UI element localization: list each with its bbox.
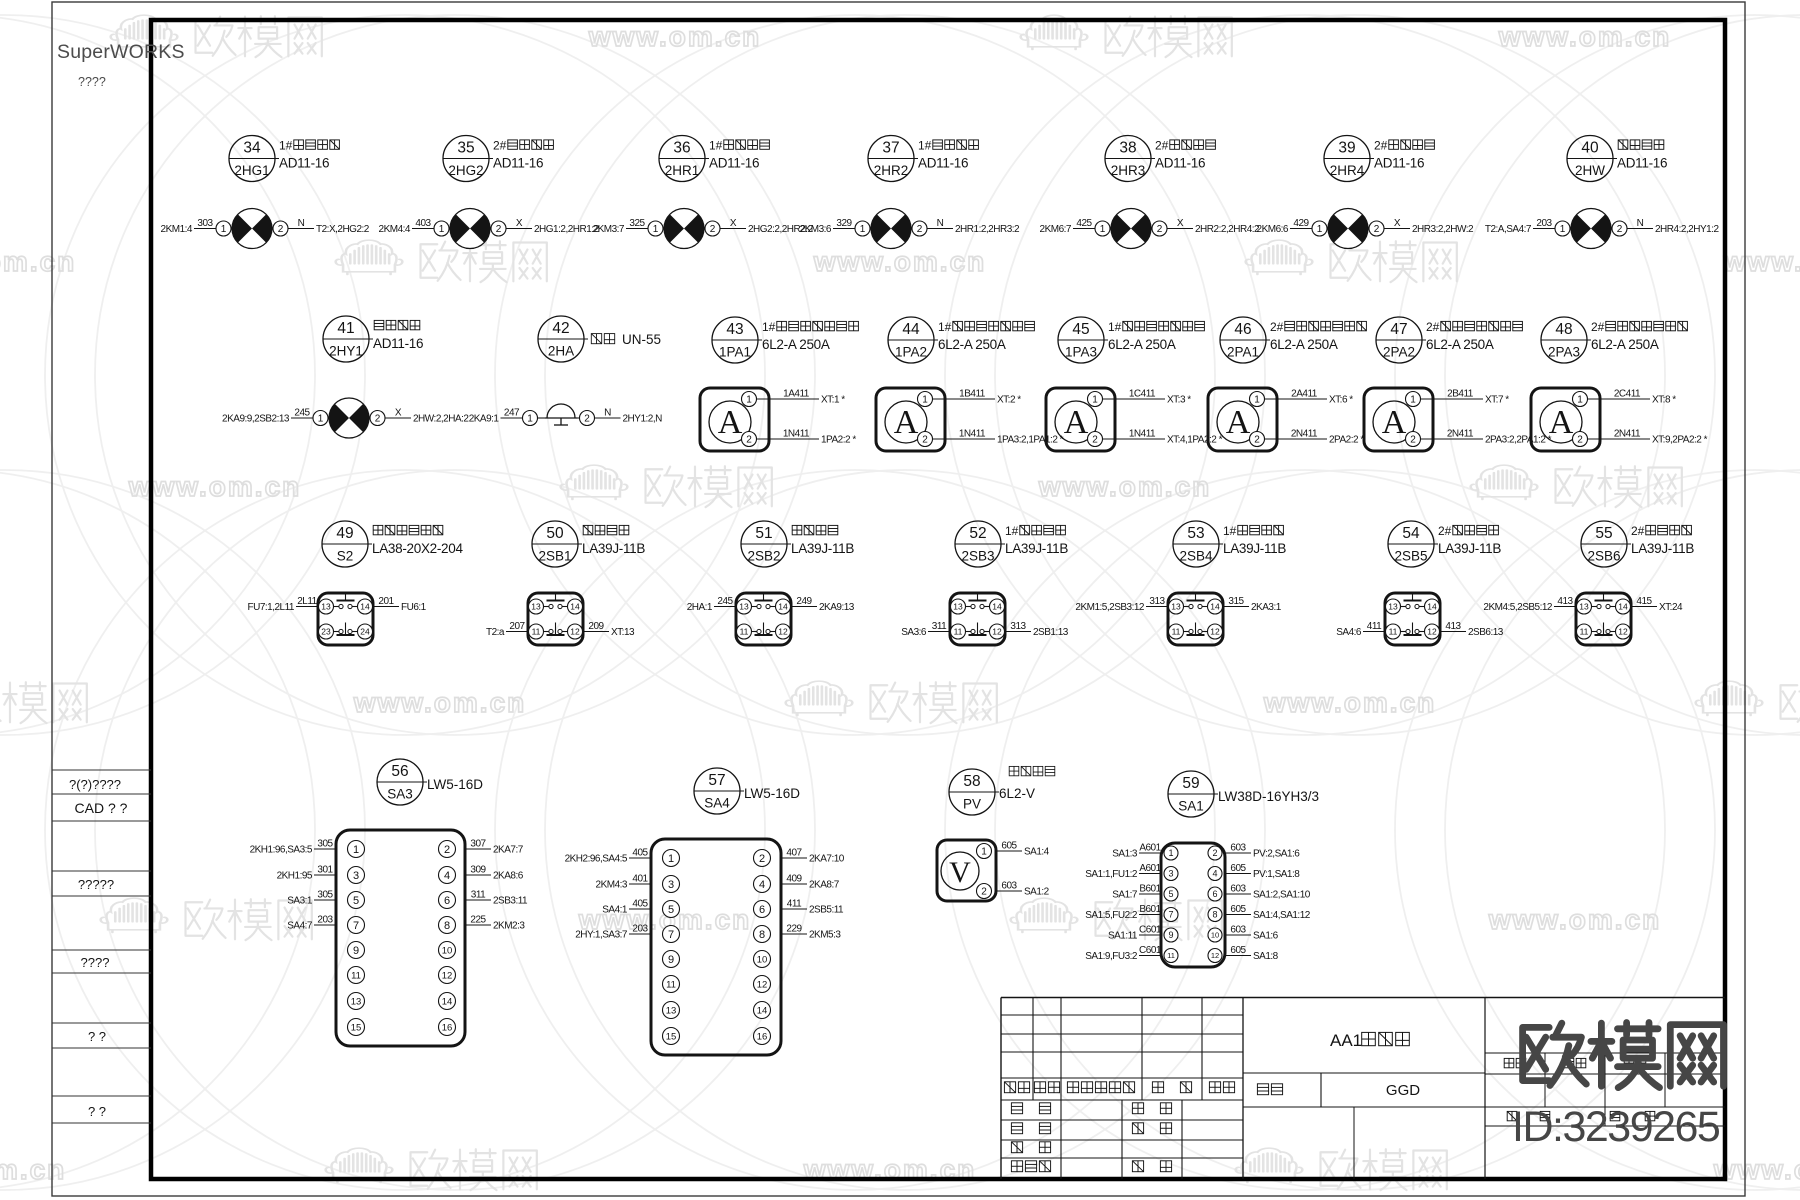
svg-text:2: 2: [1254, 435, 1260, 446]
svg-text:2HR2: 2HR2: [874, 163, 909, 178]
svg-text:1#: 1#: [1005, 524, 1019, 538]
svg-text:? ?: ? ?: [88, 1104, 106, 1119]
svg-text:XT:7 *: XT:7 *: [1485, 395, 1509, 406]
svg-text:2SB6:13: 2SB6:13: [1468, 627, 1504, 638]
svg-text:XT:4,1PA2:2 *: XT:4,1PA2:2 *: [1167, 435, 1223, 446]
svg-text:43: 43: [726, 321, 743, 338]
svg-text:LA38-20X2-204: LA38-20X2-204: [372, 541, 463, 556]
svg-text:51: 51: [755, 525, 772, 542]
svg-text:AD11-16: AD11-16: [279, 156, 329, 171]
svg-text:www.om.cn: www.om.cn: [0, 246, 76, 277]
svg-text:12: 12: [757, 979, 768, 990]
svg-text:13: 13: [351, 996, 362, 1007]
svg-text:54: 54: [1402, 525, 1420, 542]
svg-text:9: 9: [1168, 930, 1173, 940]
svg-text:11: 11: [1167, 951, 1175, 960]
svg-text:www.om.cn: www.om.cn: [128, 471, 302, 502]
svg-text:T2:a: T2:a: [486, 627, 505, 638]
svg-text:2L11: 2L11: [297, 596, 317, 607]
svg-text:2C411: 2C411: [1614, 389, 1641, 400]
svg-text:40: 40: [1581, 140, 1599, 157]
svg-text:6L2-A 250A: 6L2-A 250A: [1270, 337, 1338, 352]
svg-text:2KA7:7: 2KA7:7: [493, 845, 524, 856]
svg-text:UN-55: UN-55: [622, 332, 661, 347]
svg-text:XT:8 *: XT:8 *: [1652, 395, 1676, 406]
svg-text:59: 59: [1182, 775, 1199, 792]
svg-text:AA1: AA1: [1330, 1031, 1362, 1050]
svg-text:2HY:1,SA3:7: 2HY:1,SA3:7: [575, 930, 628, 941]
svg-text:2KM3:7: 2KM3:7: [593, 224, 625, 235]
svg-text:X: X: [516, 218, 523, 229]
svg-text:409: 409: [786, 874, 802, 885]
svg-text:1: 1: [1317, 224, 1323, 235]
svg-text:2KA7:10: 2KA7:10: [809, 854, 845, 865]
svg-text:2SB2: 2SB2: [747, 549, 780, 564]
svg-text:SA4:1: SA4:1: [602, 905, 628, 916]
svg-text:2HY1:2,N: 2HY1:2,N: [623, 414, 663, 425]
svg-text:GGD: GGD: [1386, 1082, 1420, 1099]
svg-text:SA1:3: SA1:3: [1112, 849, 1138, 860]
svg-text:6: 6: [759, 904, 765, 916]
svg-text:XT:24: XT:24: [1659, 602, 1683, 613]
svg-text:2KA9:9,2SB2:13: 2KA9:9,2SB2:13: [222, 414, 290, 425]
svg-text:14: 14: [992, 602, 1002, 612]
svg-text:SA1:9,FU3:2: SA1:9,FU3:2: [1085, 951, 1138, 962]
svg-text:1#: 1#: [938, 320, 952, 334]
svg-text:2HG1: 2HG1: [234, 163, 269, 178]
svg-text:14: 14: [442, 996, 453, 1007]
svg-text:603: 603: [1230, 925, 1246, 936]
svg-text:A: A: [1226, 404, 1251, 441]
svg-text:203: 203: [317, 915, 333, 926]
svg-text:12: 12: [1210, 627, 1220, 637]
svg-text:FU6:1: FU6:1: [401, 602, 427, 613]
svg-text:2KH1:96,SA3:5: 2KH1:96,SA3:5: [250, 845, 313, 856]
svg-text:11: 11: [1389, 627, 1398, 637]
svg-text:C601: C601: [1139, 925, 1162, 936]
svg-text:LA39J-11B: LA39J-11B: [1223, 541, 1286, 556]
svg-text:2KM5:3: 2KM5:3: [809, 930, 841, 941]
svg-text:AD11-16: AD11-16: [493, 156, 543, 171]
svg-text:2HR4:2,2HY1:2: 2HR4:2,2HY1:2: [1655, 224, 1719, 235]
svg-text:www.om.cn: www.om.cn: [1038, 471, 1212, 502]
svg-text:SA1:8: SA1:8: [1253, 951, 1279, 962]
svg-text:1B411: 1B411: [959, 389, 986, 400]
svg-text:2: 2: [1410, 435, 1416, 446]
svg-text:B601: B601: [1139, 904, 1161, 915]
svg-text:2KH2:96,SA4:5: 2KH2:96,SA4:5: [565, 854, 628, 865]
svg-text:13: 13: [953, 602, 963, 612]
svg-text:????: ????: [78, 75, 106, 89]
svg-text:2SB4: 2SB4: [1179, 549, 1213, 564]
svg-text:1: 1: [668, 853, 674, 865]
svg-text:2HR1: 2HR1: [665, 163, 700, 178]
svg-text:303: 303: [197, 218, 213, 229]
svg-text:2HG2: 2HG2: [448, 163, 483, 178]
svg-text:X: X: [395, 408, 402, 419]
svg-text:AD11-16: AD11-16: [1374, 156, 1424, 171]
svg-text:www.om.cn: www.om.cn: [0, 1154, 66, 1185]
svg-text:203: 203: [1536, 218, 1552, 229]
svg-text:10: 10: [757, 954, 768, 965]
svg-text:LW38D-16YH3/3: LW38D-16YH3/3: [1218, 789, 1319, 804]
svg-text:SA1:4,SA1:12: SA1:4,SA1:12: [1253, 910, 1311, 921]
svg-text:SA4:6: SA4:6: [1336, 627, 1362, 638]
svg-text:2SB3: 2SB3: [961, 549, 994, 564]
svg-text:X: X: [1177, 218, 1184, 229]
svg-text:207: 207: [509, 621, 525, 632]
svg-text:XT:9,2PA2:2 *: XT:9,2PA2:2 *: [1652, 435, 1708, 446]
svg-text:SA1:5,FU2:2: SA1:5,FU2:2: [1085, 910, 1138, 921]
svg-text:SA1:2,SA1:10: SA1:2,SA1:10: [1253, 890, 1311, 901]
svg-text:305: 305: [317, 839, 333, 850]
svg-text:2: 2: [1617, 224, 1623, 235]
svg-text:14: 14: [1427, 602, 1437, 612]
svg-text:SA1:1,FU1:2: SA1:1,FU1:2: [1085, 869, 1138, 880]
svg-text:CAD ? ?: CAD ? ?: [75, 800, 128, 816]
svg-text:1N411: 1N411: [959, 429, 986, 440]
svg-text:245: 245: [294, 408, 310, 419]
svg-text:4: 4: [1212, 869, 1217, 879]
svg-text:2HA: 2HA: [548, 344, 574, 359]
svg-text:14: 14: [778, 602, 788, 612]
svg-text:2: 2: [1092, 435, 1098, 446]
svg-text:425: 425: [1076, 218, 1092, 229]
svg-text:12: 12: [1211, 951, 1219, 960]
svg-text:8: 8: [1212, 910, 1217, 920]
svg-text:2HY1: 2HY1: [329, 344, 363, 359]
svg-text:2HR3: 2HR3: [1111, 163, 1146, 178]
svg-text:329: 329: [836, 218, 852, 229]
svg-text:A601: A601: [1139, 843, 1161, 854]
svg-text:15: 15: [351, 1022, 362, 1033]
svg-text:605: 605: [1001, 841, 1017, 852]
svg-text:LA39J-11B: LA39J-11B: [582, 541, 645, 556]
svg-text:ID:3239265: ID:3239265: [1512, 1103, 1720, 1151]
svg-text:2#: 2#: [1374, 139, 1388, 153]
svg-text:13: 13: [321, 602, 331, 612]
svg-text:315: 315: [1228, 596, 1244, 607]
svg-text:1: 1: [527, 414, 533, 425]
svg-text:14: 14: [360, 602, 370, 612]
svg-text:2KA9:13: 2KA9:13: [819, 602, 855, 613]
svg-text:2KM4:3: 2KM4:3: [596, 880, 628, 891]
svg-text:A: A: [718, 404, 743, 441]
svg-text:6L2-V: 6L2-V: [999, 786, 1035, 801]
svg-text:7: 7: [1168, 910, 1173, 920]
svg-text:SA3:6: SA3:6: [901, 627, 927, 638]
svg-text:311: 311: [932, 621, 947, 632]
svg-text:AD11-16: AD11-16: [918, 156, 968, 171]
svg-text:2PA3: 2PA3: [1548, 345, 1580, 360]
svg-text:LW5-16D: LW5-16D: [427, 777, 483, 792]
svg-text:11: 11: [1580, 627, 1589, 637]
svg-text:2N411: 2N411: [1447, 429, 1474, 440]
svg-text:605: 605: [1230, 904, 1246, 915]
svg-text:313: 313: [1010, 621, 1026, 632]
svg-text:SA3:1: SA3:1: [287, 896, 313, 907]
svg-text:11: 11: [351, 970, 361, 981]
svg-text:www.om.cn: www.om.cn: [588, 21, 762, 52]
svg-text:2KA8:7: 2KA8:7: [809, 880, 840, 891]
svg-text:50: 50: [546, 525, 564, 542]
svg-text:6L2-A 250A: 6L2-A 250A: [762, 337, 830, 352]
svg-text:2HW:2,2HA:2: 2HW:2,2HA:2: [413, 414, 469, 425]
svg-text:13: 13: [531, 602, 541, 612]
svg-text:1: 1: [1410, 395, 1416, 406]
svg-text:12: 12: [570, 627, 580, 637]
svg-text:311: 311: [471, 890, 486, 901]
svg-text:1: 1: [746, 395, 752, 406]
svg-text:55: 55: [1595, 525, 1612, 542]
svg-text:1: 1: [1100, 224, 1106, 235]
svg-text:5: 5: [668, 904, 674, 916]
svg-text:2A411: 2A411: [1291, 389, 1318, 400]
svg-text:A: A: [1382, 404, 1407, 441]
svg-text:603: 603: [1230, 843, 1246, 854]
svg-text:8: 8: [759, 929, 765, 941]
svg-text:1: 1: [860, 224, 866, 235]
svg-text:11: 11: [666, 979, 676, 990]
svg-text:203: 203: [632, 924, 648, 935]
svg-text:X: X: [1394, 218, 1401, 229]
svg-text:N: N: [1637, 218, 1644, 229]
svg-text:1: 1: [922, 395, 928, 406]
svg-text:14: 14: [757, 1005, 768, 1016]
svg-text:1: 1: [318, 414, 324, 425]
svg-text:11: 11: [954, 627, 963, 637]
svg-text:12: 12: [1618, 627, 1628, 637]
svg-text:1#: 1#: [709, 139, 723, 153]
svg-text:45: 45: [1072, 321, 1089, 338]
svg-text:35: 35: [457, 140, 474, 157]
svg-text:www.om.cn: www.om.cn: [813, 246, 987, 277]
svg-text:225: 225: [470, 915, 486, 926]
svg-text:15: 15: [666, 1031, 677, 1042]
svg-text:229: 229: [786, 924, 802, 935]
svg-text:T2:X,2HG2:2: T2:X,2HG2:2: [316, 224, 370, 235]
svg-text:2: 2: [375, 414, 381, 425]
svg-text:1: 1: [439, 224, 445, 235]
svg-text:LA39J-11B: LA39J-11B: [1005, 541, 1068, 556]
svg-text:1N411: 1N411: [1129, 429, 1156, 440]
svg-text:2SB6: 2SB6: [1587, 549, 1620, 564]
svg-text:16: 16: [442, 1022, 453, 1033]
svg-text:7: 7: [353, 920, 359, 932]
svg-text:2: 2: [1577, 435, 1583, 446]
svg-text:2SB5: 2SB5: [1394, 549, 1427, 564]
svg-text:1: 1: [1577, 395, 1583, 406]
svg-text:49: 49: [336, 525, 353, 542]
svg-text:403: 403: [415, 218, 431, 229]
svg-text:2KA3:1: 2KA3:1: [1251, 602, 1282, 613]
svg-text:13: 13: [1579, 602, 1589, 612]
svg-text:6L2-A 250A: 6L2-A 250A: [1591, 337, 1659, 352]
svg-text:LA39J-11B: LA39J-11B: [1438, 541, 1501, 556]
svg-text:1C411: 1C411: [1129, 389, 1156, 400]
svg-text:2SB1:13: 2SB1:13: [1033, 627, 1069, 638]
svg-text:www.om.cn: www.om.cn: [1498, 21, 1672, 52]
svg-text:2N411: 2N411: [1614, 429, 1641, 440]
svg-text:XT:1 *: XT:1 *: [821, 395, 845, 406]
svg-text:PV:2,SA1:6: PV:2,SA1:6: [1253, 849, 1300, 860]
svg-text:N: N: [604, 408, 611, 419]
svg-text:249: 249: [796, 596, 812, 607]
svg-text:SA4: SA4: [704, 796, 730, 811]
svg-text:N: N: [937, 218, 944, 229]
svg-text:www.om.cn: www.om.cn: [1723, 246, 1800, 277]
svg-text:5: 5: [353, 895, 359, 907]
svg-text:2: 2: [710, 224, 716, 235]
svg-text:2: 2: [1157, 224, 1163, 235]
svg-text:4: 4: [759, 879, 765, 891]
svg-text:SuperWORKS: SuperWORKS: [57, 41, 185, 63]
svg-text:2HG1:2,2HR1:2: 2HG1:2,2HR1:2: [534, 224, 600, 235]
svg-text:11: 11: [1172, 627, 1181, 637]
svg-text:44: 44: [902, 321, 920, 338]
svg-text:?(?)????: ?(?)????: [69, 777, 121, 792]
svg-text:2: 2: [917, 224, 923, 235]
svg-text:SA1:11: SA1:11: [1108, 931, 1138, 942]
svg-text:2: 2: [759, 853, 765, 865]
svg-text:245: 245: [717, 596, 733, 607]
svg-text:12: 12: [778, 627, 788, 637]
svg-text:209: 209: [588, 621, 604, 632]
svg-text:2: 2: [981, 887, 987, 898]
svg-text:301: 301: [317, 865, 333, 876]
svg-text:2: 2: [922, 435, 928, 446]
svg-text:42: 42: [552, 320, 569, 337]
svg-text:325: 325: [629, 218, 645, 229]
svg-text:309: 309: [470, 865, 486, 876]
svg-text:1PA2: 1PA2: [895, 345, 927, 360]
svg-text:2#: 2#: [1591, 320, 1605, 334]
svg-text:3: 3: [1168, 869, 1173, 879]
svg-text:A601: A601: [1139, 863, 1161, 874]
svg-text:PV:1,SA1:8: PV:1,SA1:8: [1253, 869, 1300, 880]
svg-text:6: 6: [444, 895, 450, 907]
svg-text:S2: S2: [337, 549, 354, 564]
svg-text:2SB5:11: 2SB5:11: [809, 905, 844, 916]
svg-text:307: 307: [470, 839, 486, 850]
svg-text:13: 13: [1171, 602, 1181, 612]
svg-text:6L2-A 250A: 6L2-A 250A: [1426, 337, 1494, 352]
svg-text:247: 247: [504, 408, 520, 419]
svg-text:2KA9:1: 2KA9:1: [469, 414, 500, 425]
svg-text:2HA:1: 2HA:1: [687, 602, 713, 613]
svg-text:FU7:1,2L11: FU7:1,2L11: [247, 602, 294, 613]
svg-text:SA4:7: SA4:7: [287, 921, 313, 932]
svg-text:1PA2:2 *: 1PA2:2 *: [821, 435, 856, 446]
svg-text:www.om.cn: www.om.cn: [1263, 687, 1437, 718]
svg-text:1: 1: [981, 847, 987, 858]
svg-text:10: 10: [1211, 931, 1219, 940]
svg-text:2: 2: [444, 844, 450, 856]
svg-text:23: 23: [321, 627, 331, 637]
svg-text:4: 4: [444, 870, 450, 882]
svg-text:37: 37: [882, 140, 899, 157]
svg-text:2PA1: 2PA1: [1227, 345, 1259, 360]
svg-text:305: 305: [317, 890, 333, 901]
svg-text:????: ????: [81, 955, 110, 970]
svg-text:www.om.cn: www.om.cn: [1488, 904, 1662, 935]
svg-text:SA1:6: SA1:6: [1253, 931, 1279, 942]
svg-text:B601: B601: [1139, 884, 1161, 895]
svg-text:C601: C601: [1139, 945, 1162, 956]
svg-text:6L2-A 250A: 6L2-A 250A: [1108, 337, 1176, 352]
svg-text:1: 1: [1560, 224, 1566, 235]
svg-text:2: 2: [1212, 848, 1217, 858]
svg-text:?????: ?????: [78, 877, 114, 892]
svg-text:? ?: ? ?: [88, 1029, 106, 1044]
svg-text:13: 13: [1388, 602, 1398, 612]
svg-text:1: 1: [1168, 848, 1173, 858]
svg-text:34: 34: [243, 140, 261, 157]
svg-text:XT:2 *: XT:2 *: [997, 395, 1021, 406]
svg-text:2PA3:2,2PA1:2 *: 2PA3:2,2PA1:2 *: [1485, 435, 1552, 446]
svg-text:1N411: 1N411: [783, 429, 810, 440]
svg-text:605: 605: [1230, 945, 1246, 956]
svg-text:1#: 1#: [918, 139, 932, 153]
svg-text:2KM2:3: 2KM2:3: [493, 921, 525, 932]
svg-text:SA1:2: SA1:2: [1024, 887, 1050, 898]
svg-text:SA1:7: SA1:7: [1112, 890, 1138, 901]
svg-text:2: 2: [1374, 224, 1380, 235]
svg-text:605: 605: [1230, 863, 1246, 874]
svg-text:1#: 1#: [279, 139, 293, 153]
svg-text:47: 47: [1390, 321, 1407, 338]
svg-text:7: 7: [668, 929, 674, 941]
svg-text:2#: 2#: [1438, 524, 1452, 538]
svg-text:LA39J-11B: LA39J-11B: [791, 541, 854, 556]
svg-text:12: 12: [442, 970, 453, 981]
svg-text:AD11-16: AD11-16: [373, 336, 423, 351]
svg-text:46: 46: [1234, 321, 1251, 338]
svg-text:603: 603: [1230, 884, 1246, 895]
svg-text:405: 405: [632, 899, 648, 910]
svg-text:52: 52: [969, 525, 986, 542]
svg-text:XT:3 *: XT:3 *: [1167, 395, 1191, 406]
svg-text:2: 2: [278, 224, 284, 235]
svg-text:PV: PV: [963, 797, 981, 812]
svg-text:2PA2:2 *: 2PA2:2 *: [1329, 435, 1364, 446]
svg-text:2SB1: 2SB1: [538, 549, 571, 564]
svg-text:AD11-16: AD11-16: [1155, 156, 1205, 171]
svg-text:38: 38: [1119, 140, 1136, 157]
svg-text:39: 39: [1338, 140, 1355, 157]
svg-text:1PA1: 1PA1: [719, 345, 751, 360]
svg-text:2#: 2#: [1270, 320, 1284, 334]
svg-text:14: 14: [1618, 602, 1628, 612]
svg-text:2: 2: [746, 435, 752, 446]
svg-text:1: 1: [353, 844, 359, 856]
svg-text:SA3: SA3: [387, 787, 413, 802]
svg-text:A: A: [894, 404, 919, 441]
svg-text:48: 48: [1555, 321, 1572, 338]
svg-text:1#: 1#: [762, 320, 776, 334]
svg-text:58: 58: [963, 773, 980, 790]
svg-text:3: 3: [668, 879, 674, 891]
svg-text:1: 1: [221, 224, 227, 235]
svg-text:407: 407: [786, 848, 802, 859]
svg-text:24: 24: [360, 627, 370, 637]
svg-text:413: 413: [1445, 621, 1461, 632]
svg-text:415: 415: [1636, 596, 1652, 607]
svg-text:313: 313: [1149, 596, 1165, 607]
svg-text:3: 3: [353, 870, 359, 882]
svg-text:XT:6 *: XT:6 *: [1329, 395, 1353, 406]
svg-text:401: 401: [632, 874, 648, 885]
